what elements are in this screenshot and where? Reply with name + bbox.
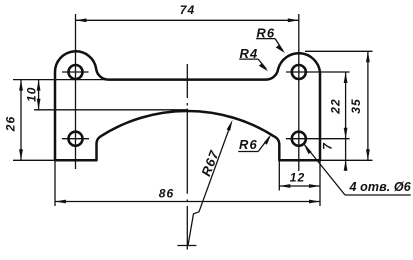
centerline top-left hole horizontal [62, 71, 89, 73]
centerline bottom-right hole horizontal [286, 138, 350, 140]
svg-text:35: 35 [349, 98, 363, 114]
dim 74 line [76, 19, 299, 21]
svg-text:22: 22 [329, 98, 343, 115]
dim 22 line [345, 72, 347, 139]
right edge extension line [319, 160, 321, 206]
dim 12 extension line foot [278, 160, 280, 190]
hole bottom-right [292, 132, 306, 146]
dim 26 line [20, 80, 22, 161]
svg-text:86: 86 [159, 187, 175, 201]
dim 26 extension lines [13, 79, 110, 81]
dim 12 line [279, 185, 320, 187]
svg-text:7: 7 [321, 142, 335, 150]
bottom edge extension line right [320, 159, 373, 161]
centerline left hole column [75, 14, 77, 169]
center axis vertical dash-dot [186, 64, 188, 98]
svg-text:26: 26 [3, 116, 17, 133]
svg-text:4 отв. Ø6: 4 отв. Ø6 [349, 180, 412, 194]
centerline right hole column [298, 14, 300, 171]
dim 10 line [38, 80, 40, 110]
centerline top-right hole horizontal [286, 71, 350, 73]
leader 4 holes [304, 144, 346, 196]
dim 35 line [367, 51, 369, 160]
dim 7 line [345, 139, 347, 171]
center mark cross tick [177, 245, 196, 247]
dim 86 line [55, 201, 320, 203]
centerline bottom-left hole horizontal [62, 138, 89, 140]
hole top-right [292, 65, 306, 79]
R67 leader zigzag [188, 125, 231, 246]
hole top-left [69, 65, 83, 79]
svg-text:10: 10 [24, 86, 38, 102]
svg-text:R6: R6 [239, 137, 258, 152]
left edge extension line [54, 160, 56, 206]
dim 35 extension line top [305, 50, 373, 52]
svg-text:12: 12 [290, 171, 306, 185]
hole bottom-left [69, 132, 83, 146]
part outline [55, 51, 320, 160]
svg-text:74: 74 [180, 3, 196, 17]
dim 10 extension line [34, 109, 187, 111]
svg-text:R67: R67 [198, 148, 222, 179]
